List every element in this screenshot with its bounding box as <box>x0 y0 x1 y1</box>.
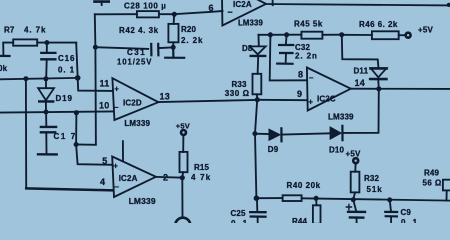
node C32 top <box>284 32 289 37</box>
wire IC2B output <box>266 4 450 5</box>
resistor R40 <box>283 181 321 201</box>
node E <box>74 110 79 115</box>
svg-text:C9: C9 <box>401 208 412 217</box>
node R32 bottom <box>351 197 356 202</box>
ground stub R20/C31 <box>165 47 184 57</box>
svg-text:R32: R32 <box>364 174 380 183</box>
wire R42 node down the loop bar <box>76 14 96 145</box>
wire corner to pin 11 <box>76 43 113 91</box>
svg-text:C28 100 µ: C28 100 µ <box>124 1 166 10</box>
diode D11 <box>354 67 387 89</box>
node C9 <box>387 197 392 202</box>
wire feedback loop to pin 5 <box>76 112 113 165</box>
node C <box>75 75 81 81</box>
capacitor C33 electrolytic <box>346 200 365 223</box>
capacitor C9 <box>385 200 418 227</box>
node R7/C16 <box>44 40 49 45</box>
node R44 <box>314 196 319 201</box>
svg-text:C1 7: C1 7 <box>54 132 77 141</box>
wire IC2A vcc stub <box>122 141 124 160</box>
wire pin 8 <box>270 35 307 81</box>
wire bus y=112 (to pin 10) <box>0 111 113 112</box>
svg-text:5: 5 <box>102 156 107 166</box>
svg-text:2. 2k: 2. 2k <box>181 36 203 45</box>
wire left vertical to pin 4 <box>25 79 27 189</box>
terminal circle bottom <box>175 218 190 233</box>
svg-text:R42 4. 3k: R42 4. 3k <box>119 26 159 35</box>
wire R46 node to D11 <box>342 35 379 68</box>
svg-text:4. 7k: 4. 7k <box>24 26 46 35</box>
svg-text:R40 20k: R40 20k <box>287 181 321 190</box>
capacitor C31 <box>95 44 173 66</box>
capacitor C32 <box>277 35 318 64</box>
svg-text:R46 6. 2k: R46 6. 2k <box>359 20 398 29</box>
capacitor C28 (cut off at top) <box>95 1 167 10</box>
terminal +5V left <box>176 122 190 135</box>
capacitor C17 <box>38 112 77 154</box>
node at right edge <box>447 3 450 7</box>
node C25 <box>254 195 260 201</box>
svg-text:C31: C31 <box>127 48 146 57</box>
op-amp IC2C <box>297 68 365 122</box>
node pin8 drop <box>268 32 273 37</box>
node F <box>74 142 79 147</box>
svg-text:D11: D11 <box>354 67 369 76</box>
svg-text:LM339: LM339 <box>129 196 156 206</box>
svg-text:C25: C25 <box>231 209 247 218</box>
svg-text:LM339: LM339 <box>328 113 354 122</box>
resistor R46 <box>342 20 406 39</box>
wire IC2D out to pin 9 <box>158 100 256 102</box>
svg-text:D8: D8 <box>242 44 253 53</box>
svg-text:+: + <box>113 161 118 170</box>
svg-text:IC2A: IC2A <box>119 174 138 183</box>
svg-text:330 Ω: 330 Ω <box>225 89 250 98</box>
capacitor C25 <box>231 198 266 228</box>
svg-text:C32: C32 <box>295 43 311 52</box>
svg-text:−: − <box>114 183 119 192</box>
svg-text:R33: R33 <box>232 80 248 89</box>
node D19 bottom <box>44 110 49 115</box>
svg-text:D10: D10 <box>329 146 345 155</box>
node R20/C31 <box>171 45 176 50</box>
svg-text:6: 6 <box>209 3 214 13</box>
node pin 9 <box>255 97 260 102</box>
svg-text:0. 1: 0. 1 <box>58 66 75 75</box>
op-amp IC2A <box>100 156 168 206</box>
resistor R33 <box>225 74 262 100</box>
svg-text:R15: R15 <box>194 163 210 172</box>
bottom bus wire <box>256 198 450 201</box>
node D9 <box>252 131 257 136</box>
svg-text:+: + <box>308 98 313 107</box>
terminal +5V mid <box>346 150 362 164</box>
svg-text:−: − <box>114 103 119 112</box>
svg-text:101/25V: 101/25V <box>117 57 152 66</box>
wire D11 node down to D10 <box>344 89 379 133</box>
svg-text:D19: D19 <box>56 94 73 103</box>
node D11 bottom <box>376 86 381 91</box>
diode D9 <box>255 128 330 154</box>
svg-text:+5V: +5V <box>418 26 434 35</box>
svg-text:56 Ω: 56 Ω <box>423 179 442 188</box>
wire to terminal <box>181 178 183 218</box>
svg-text:LM339: LM339 <box>124 119 150 128</box>
svg-text:8: 8 <box>298 70 303 80</box>
wire R7 to corner <box>37 42 76 44</box>
svg-text:R7: R7 <box>4 26 15 35</box>
svg-text:R44: R44 <box>292 217 308 223</box>
resistor R15 <box>180 135 212 182</box>
svg-text:10: 10 <box>99 100 109 110</box>
capacitor C16 <box>41 43 75 79</box>
svg-text:4 7k: 4 7k <box>191 173 211 182</box>
wire D8 bus y=34.7 <box>258 34 301 36</box>
svg-text:IC2A: IC2A <box>233 0 252 9</box>
node A <box>23 76 28 81</box>
wire pin9 node down <box>255 100 257 199</box>
wire pin 6 <box>174 11 222 14</box>
svg-text:11: 11 <box>100 79 110 89</box>
svg-text:0. 1: 0. 1 <box>231 219 248 223</box>
svg-text:R49: R49 <box>424 168 440 177</box>
terminal +5V top right <box>406 33 411 38</box>
svg-text:13: 13 <box>160 92 170 102</box>
svg-text:14: 14 <box>355 78 365 88</box>
wire IC2A output <box>156 176 182 179</box>
svg-text:+5V: +5V <box>346 150 362 159</box>
svg-text:LM339: LM339 <box>238 19 264 28</box>
node R42/R20/pin6 <box>172 12 177 17</box>
svg-text:51k: 51k <box>367 185 383 194</box>
op-amp IC2B (cut off at top) <box>209 0 267 28</box>
svg-text:D9: D9 <box>268 145 279 154</box>
resistor R7 <box>0 26 46 57</box>
op-amp IC2D <box>99 78 170 128</box>
diode D10 <box>329 126 345 155</box>
svg-text:R45 5k: R45 5k <box>294 19 323 28</box>
resistor R44 <box>292 198 321 226</box>
wire bus y=78.5 <box>0 78 78 79</box>
svg-text:0k: 0k <box>0 64 8 73</box>
svg-text:R20: R20 <box>181 25 197 34</box>
svg-text:0. 1: 0. 1 <box>401 218 418 223</box>
svg-text:−: − <box>309 74 314 83</box>
resistor R45 <box>294 19 342 38</box>
diode D8 <box>242 35 266 74</box>
wire IC2C output <box>351 88 450 90</box>
diode D19 <box>38 79 73 112</box>
node R45/R46 <box>339 32 344 37</box>
svg-text:C16: C16 <box>58 54 75 63</box>
resistor R49 <box>423 168 450 200</box>
wire stub on output <box>272 0 274 5</box>
svg-text:IC2C: IC2C <box>317 94 336 103</box>
wire pin 9 stub <box>257 99 306 101</box>
svg-text:4: 4 <box>100 177 105 187</box>
svg-text:IC2D: IC2D <box>123 99 142 108</box>
node C31 left <box>93 45 98 50</box>
resistor R20 <box>168 14 203 47</box>
resistor R32 <box>351 163 383 199</box>
node pin 2 <box>180 175 185 180</box>
svg-text:2. 2n: 2. 2n <box>295 52 318 61</box>
resistor R42 <box>95 11 175 35</box>
svg-text:9: 9 <box>297 89 302 99</box>
svg-text:+: + <box>114 84 119 93</box>
node B <box>43 76 48 81</box>
